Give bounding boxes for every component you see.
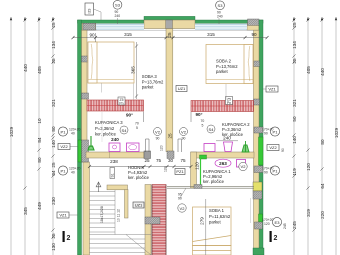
svg-text:S1: S1 bbox=[111, 173, 115, 177]
box PZ1 hall bbox=[175, 169, 185, 175]
dim 365 room3 bbox=[136, 42, 138, 99]
svg-text:VZ2: VZ2 bbox=[60, 144, 68, 149]
svg-text:440: 440 bbox=[320, 68, 325, 76]
svg-text:405: 405 bbox=[306, 66, 311, 74]
dim line L2 bbox=[24, 17, 26, 255]
label hodnik bbox=[128, 165, 150, 180]
svg-text:90: 90 bbox=[251, 32, 257, 37]
circle V2 soba1 bbox=[178, 204, 186, 212]
svg-text:120: 120 bbox=[160, 145, 164, 151]
svg-text:25: 25 bbox=[51, 162, 56, 168]
svg-text:449: 449 bbox=[37, 202, 42, 210]
svg-text:S3: S3 bbox=[218, 3, 224, 8]
svg-text:parket: parket bbox=[216, 69, 228, 74]
section mark 2 left bbox=[63, 231, 65, 242]
circle S3 top-right bbox=[216, 1, 225, 10]
raised center green bbox=[144, 16, 195, 20]
circle V2 bath3 right bbox=[154, 128, 162, 136]
svg-text:90: 90 bbox=[182, 137, 186, 141]
gray niche in stair wall bbox=[145, 217, 160, 224]
svg-text:120: 120 bbox=[306, 163, 311, 171]
toilet bath2 (magenta) bbox=[224, 142, 233, 152]
svg-text:5: 5 bbox=[136, 126, 138, 130]
svg-text:140: 140 bbox=[292, 136, 297, 144]
label soba2 bbox=[216, 59, 238, 74]
plant bath2 (green) bbox=[242, 141, 249, 152]
gray threshold block in mid wall bbox=[167, 151, 174, 159]
right wall gray jamb at window bottom bbox=[254, 166, 263, 173]
svg-text:80: 80 bbox=[320, 139, 325, 145]
svg-text:134: 134 bbox=[292, 41, 297, 49]
label soba3 bbox=[142, 74, 164, 89]
circle P1 left upper bbox=[58, 127, 67, 136]
stair hatched wall bbox=[152, 185, 166, 255]
svg-text:25: 25 bbox=[292, 58, 297, 64]
svg-text:40: 40 bbox=[71, 132, 75, 136]
svg-text:Pn: Pn bbox=[119, 102, 123, 106]
svg-text:V2: V2 bbox=[155, 129, 161, 134]
right wall masonry bbox=[254, 30, 260, 255]
label soba1 bbox=[209, 208, 231, 224]
svg-text:315: 315 bbox=[124, 32, 132, 37]
svg-text:ker. pločice: ker. pločice bbox=[128, 175, 150, 180]
svg-text:10: 10 bbox=[37, 118, 42, 124]
box S1 vertical hall bbox=[110, 168, 115, 179]
svg-text:90: 90 bbox=[89, 32, 95, 37]
bed room2 bbox=[206, 45, 253, 84]
svg-text:84: 84 bbox=[37, 137, 42, 143]
left wall gray jamb upper bbox=[82, 56, 89, 62]
svg-text:238: 238 bbox=[110, 159, 118, 164]
svg-text:245: 245 bbox=[283, 223, 287, 229]
svg-text:SOBA 3: SOBA 3 bbox=[142, 74, 158, 79]
door block in partition bbox=[194, 185, 202, 189]
svg-text:V2: V2 bbox=[241, 164, 247, 169]
left ticks bbox=[23, 18, 54, 238]
svg-text:V2: V2 bbox=[180, 206, 186, 211]
svg-text:2: 2 bbox=[67, 235, 71, 242]
right wall gray jamb at window top bbox=[254, 127, 263, 133]
svg-text:25: 25 bbox=[292, 22, 297, 28]
box VZ1 left lower bbox=[57, 212, 69, 218]
svg-text:405: 405 bbox=[37, 66, 42, 74]
circle S4 bath2 bbox=[207, 125, 215, 133]
right wall green insulation bbox=[259, 20, 263, 255]
sink bath2 (magenta) bbox=[204, 144, 215, 152]
shower/plant bath3 (green) bbox=[88, 136, 94, 150]
svg-text:SOBA 1: SOBA 1 bbox=[209, 208, 225, 213]
gray lintel block top-right corner bbox=[248, 19, 260, 25]
circle S3 top-left bbox=[113, 0, 122, 9]
svg-text:5: 5 bbox=[202, 124, 204, 128]
dim line R1 bbox=[293, 17, 295, 255]
right wall gray jamb lower bbox=[254, 99, 260, 105]
svg-text:25: 25 bbox=[168, 133, 173, 139]
svg-text:70: 70 bbox=[201, 119, 205, 123]
svg-text:UZ1: UZ1 bbox=[135, 203, 143, 208]
svg-text:90: 90 bbox=[281, 148, 285, 152]
hallway dim row bbox=[90, 166, 192, 168]
svg-text:PZ1: PZ1 bbox=[176, 169, 184, 174]
svg-text:119: 119 bbox=[292, 168, 297, 176]
svg-text:Pn: Pn bbox=[227, 101, 231, 105]
svg-text:70: 70 bbox=[135, 122, 139, 126]
svg-text:SOBA 2: SOBA 2 bbox=[216, 59, 232, 64]
svg-text:440: 440 bbox=[23, 64, 28, 72]
svg-text:84: 84 bbox=[51, 170, 56, 176]
dim line L1 bbox=[10, 17, 12, 255]
svg-text:220: 220 bbox=[320, 211, 325, 219]
stairwell inner wall vertical bbox=[125, 190, 129, 219]
svg-text:KUPAONICA 3: KUPAONICA 3 bbox=[95, 120, 123, 125]
circle P1 left lower bbox=[58, 166, 67, 175]
box VZ2 left bbox=[58, 144, 70, 150]
sink bath1 (magenta) bbox=[237, 160, 246, 168]
left dim numbers bbox=[9, 22, 56, 251]
misc leader lines bbox=[250, 198, 252, 223]
circle P1 right lower bbox=[270, 166, 279, 175]
svg-text:P1: P1 bbox=[61, 168, 67, 173]
bed room1 (bottom) bbox=[193, 207, 232, 255]
svg-text:120: 120 bbox=[264, 222, 270, 226]
svg-text:1029: 1029 bbox=[334, 127, 339, 138]
svg-text:25: 25 bbox=[167, 32, 172, 38]
top wall insulation (green) bbox=[78, 16, 264, 23]
svg-text:VZ2: VZ2 bbox=[269, 145, 277, 150]
stair top wall bbox=[107, 185, 128, 190]
svg-text:279: 279 bbox=[200, 217, 205, 225]
svg-text:S4: S4 bbox=[122, 128, 128, 133]
top wall inner face line bbox=[82, 29, 259, 31]
svg-text:90: 90 bbox=[264, 171, 268, 175]
svg-text:90°: 90° bbox=[126, 113, 133, 118]
top dim row bbox=[73, 33, 267, 42]
bed room3 bbox=[88, 42, 134, 93]
diagonal cut line bbox=[126, 235, 151, 255]
svg-text:ker. pločice: ker. pločice bbox=[203, 179, 225, 184]
circle P1 right upper bbox=[270, 127, 279, 136]
left wall door jamb gray bbox=[82, 140, 89, 162]
svg-text:75: 75 bbox=[156, 158, 162, 163]
left wall gray jamb lower bbox=[82, 93, 89, 99]
svg-text:25: 25 bbox=[144, 158, 150, 163]
door jamb line room3 bbox=[143, 112, 145, 123]
door swing soba1 bbox=[180, 188, 186, 198]
left wall green insulation bbox=[78, 20, 82, 255]
lower flight treads bbox=[90, 238, 146, 240]
landing line bbox=[90, 234, 152, 236]
right wall window (green) bbox=[259, 137, 264, 165]
partition wall soba1/bath1 bbox=[167, 185, 254, 187]
door jamb line room2 bbox=[190, 112, 192, 122]
box UZ1 stairs bbox=[133, 202, 144, 208]
door leaf bath3 bbox=[145, 139, 147, 152]
dim line L3 bbox=[38, 17, 40, 255]
svg-text:V2: V2 bbox=[181, 129, 187, 134]
circle E3 right bbox=[272, 217, 281, 226]
svg-text:P=3,36m2: P=3,36m2 bbox=[95, 126, 115, 131]
svg-text:90°: 90° bbox=[196, 112, 203, 117]
svg-text:25: 25 bbox=[51, 233, 56, 239]
dim 279 room1 bbox=[205, 199, 207, 255]
svg-text:263: 263 bbox=[219, 161, 227, 166]
svg-text:10 11 12: 10 11 12 bbox=[117, 209, 121, 222]
toilet bath3 (magenta) bbox=[127, 143, 140, 152]
svg-text:130: 130 bbox=[51, 243, 56, 251]
label kupaonica1 bbox=[203, 169, 231, 184]
svg-text:240: 240 bbox=[115, 14, 121, 18]
svg-text:VZ1: VZ1 bbox=[59, 213, 67, 218]
svg-text:30: 30 bbox=[168, 158, 174, 163]
svg-text:64: 64 bbox=[320, 183, 325, 189]
left wall door (green) bbox=[78, 140, 82, 162]
right wall gray jamb upper bbox=[254, 61, 260, 67]
dim line R4 bbox=[335, 17, 337, 255]
svg-text:25: 25 bbox=[51, 22, 56, 28]
label box on right hatch bbox=[226, 97, 233, 105]
svg-text:230: 230 bbox=[51, 197, 56, 205]
dim line R3 bbox=[321, 17, 323, 255]
svg-text:2: 2 bbox=[274, 235, 278, 242]
svg-text:240: 240 bbox=[217, 15, 223, 19]
svg-text:321: 321 bbox=[292, 99, 297, 107]
label kupaonica3 bbox=[95, 120, 123, 137]
svg-text:ker. pločice: ker. pločice bbox=[222, 132, 244, 137]
box UZ1 room2 bbox=[176, 86, 187, 92]
svg-text:134: 134 bbox=[51, 41, 56, 49]
hatched wall left (room3) bbox=[87, 100, 144, 111]
svg-text:90: 90 bbox=[178, 197, 182, 201]
svg-text:80: 80 bbox=[37, 157, 42, 163]
svg-text:25: 25 bbox=[51, 58, 56, 64]
svg-text:120: 120 bbox=[195, 162, 200, 170]
box IZ top-left bbox=[85, 3, 94, 15]
circle S4 bath3 bbox=[120, 126, 128, 134]
top window glazing right bbox=[195, 24, 247, 30]
stair inner wall tan bbox=[145, 185, 151, 255]
circle V2 bath2 bbox=[180, 128, 188, 136]
svg-text:90: 90 bbox=[156, 137, 160, 141]
hatched wall right (room2) bbox=[191, 101, 254, 112]
svg-text:75: 75 bbox=[180, 158, 186, 163]
section mark 2 right bbox=[270, 231, 272, 242]
svg-text:120: 120 bbox=[164, 166, 168, 172]
svg-text:321: 321 bbox=[51, 99, 56, 107]
door leaf bath2 bbox=[177, 139, 179, 152]
upper flight treads bbox=[90, 191, 116, 193]
sink bath3 (magenta) bbox=[109, 143, 120, 152]
flight divider bbox=[114, 190, 116, 235]
svg-text:345: 345 bbox=[23, 207, 28, 215]
dim line L4 bbox=[52, 17, 54, 255]
svg-text:IZ3: IZ3 bbox=[88, 8, 92, 13]
svg-text:1029: 1029 bbox=[9, 126, 14, 137]
svg-text:parket: parket bbox=[209, 219, 221, 224]
gray lintel block top-center bbox=[166, 20, 173, 29]
svg-text:ker. pločice: ker. pločice bbox=[95, 132, 117, 137]
box VZ2 right bbox=[267, 145, 279, 151]
svg-text:50: 50 bbox=[292, 116, 297, 122]
svg-text:80: 80 bbox=[51, 126, 56, 132]
svg-text:90: 90 bbox=[264, 132, 268, 136]
stair up arrow bbox=[96, 182, 101, 192]
top wall masonry (tan) bbox=[82, 20, 259, 30]
top window glazing left bbox=[96, 24, 144, 30]
green door block bath1 bbox=[200, 155, 207, 159]
svg-text:245: 245 bbox=[292, 221, 297, 229]
svg-text:S3: S3 bbox=[115, 3, 121, 8]
svg-text:P1: P1 bbox=[61, 129, 67, 134]
left wall masonry bbox=[82, 30, 88, 162]
box VZ1 right bbox=[266, 86, 278, 92]
svg-text:VZ1: VZ1 bbox=[268, 87, 276, 92]
svg-text:140: 140 bbox=[51, 140, 56, 148]
gray lintel block top-left corner bbox=[83, 23, 96, 30]
svg-text:18x17,2/28: 18x17,2/28 bbox=[100, 206, 104, 223]
svg-text:S4: S4 bbox=[209, 127, 215, 132]
dim line R2 bbox=[307, 17, 309, 255]
right wall tan blocks lower bbox=[253, 182, 262, 191]
svg-text:P=11,62m2: P=11,62m2 bbox=[209, 214, 231, 219]
svg-text:319: 319 bbox=[306, 209, 311, 217]
svg-text:365: 365 bbox=[131, 66, 136, 74]
svg-text:40: 40 bbox=[71, 171, 75, 175]
label box on left hatch bbox=[118, 97, 125, 105]
svg-text:parket: parket bbox=[142, 84, 154, 89]
svg-text:UZ1: UZ1 bbox=[178, 86, 186, 91]
svg-text:240: 240 bbox=[111, 137, 119, 142]
svg-text:E3: E3 bbox=[275, 220, 281, 225]
V2 circle bath1 bbox=[239, 162, 247, 170]
svg-text:315: 315 bbox=[207, 32, 215, 37]
label kupaonica2 bbox=[222, 122, 250, 137]
